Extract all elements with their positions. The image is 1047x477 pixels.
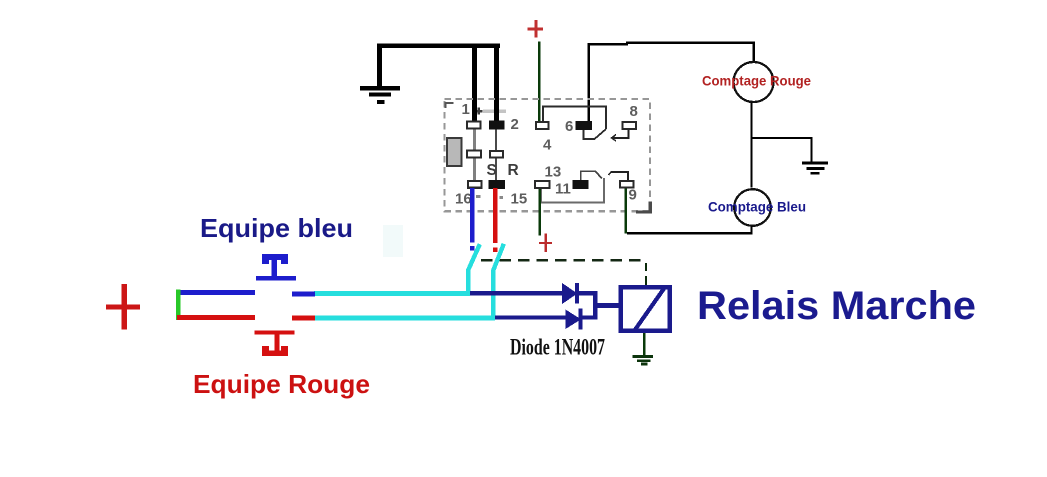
svg-text:11: 11: [555, 181, 571, 198]
svg-text:4: 4: [543, 137, 552, 154]
svg-text:15: 15: [511, 191, 528, 208]
svg-text:R: R: [508, 162, 519, 179]
svg-text:8: 8: [630, 103, 638, 120]
svg-text:Equipe Rouge: Equipe Rouge: [193, 369, 370, 399]
svg-text:Equipe bleu: Equipe bleu: [200, 213, 353, 243]
svg-text:Diode 1N4007: Diode 1N4007: [510, 335, 605, 360]
svg-text:6: 6: [565, 118, 573, 135]
svg-text:Comptage Rouge: Comptage Rouge: [702, 73, 811, 89]
svg-text:Relais Marche: Relais Marche: [697, 284, 976, 328]
svg-text:16: 16: [455, 191, 472, 208]
svg-text:2: 2: [511, 116, 519, 133]
svg-text:13: 13: [545, 164, 562, 181]
svg-text:9: 9: [629, 187, 637, 204]
svg-text:1: 1: [462, 101, 470, 118]
svg-text:S: S: [487, 162, 497, 179]
svg-text:Comptage Bleu: Comptage Bleu: [708, 199, 806, 215]
